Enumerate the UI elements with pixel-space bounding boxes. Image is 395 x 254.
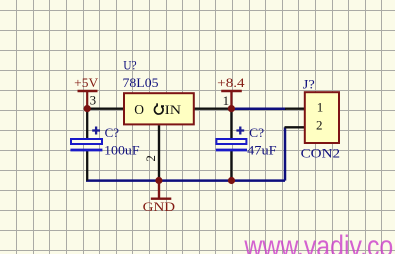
svg-text:2: 2	[316, 117, 323, 132]
svg-text:CON2: CON2	[301, 145, 341, 160]
connector J? pin 2 stub	[285, 126, 306, 128]
regulator inner glyph circular arrow	[154, 106, 163, 114]
regulator U? pin 2 (bottom)	[158, 125, 160, 180]
svg-text:100uF: 100uF	[104, 142, 140, 157]
capacitor C1 top pin	[86, 109, 88, 139]
junction dot B	[228, 105, 235, 112]
svg-text:1: 1	[223, 93, 230, 108]
capacitor C2 top plate	[216, 139, 246, 144]
wire riser to connector pin 2	[284, 127, 287, 180]
capacitor C2 bottom pin	[230, 151, 232, 181]
svg-text:O: O	[134, 102, 144, 117]
junction dot C (GND net)	[155, 177, 162, 184]
capacitor C1 plus	[92, 127, 100, 135]
svg-text:U?: U?	[123, 58, 137, 73]
connector J? body	[305, 92, 339, 143]
junction dot A	[84, 105, 91, 112]
capacitor C2 bottom plate	[216, 149, 247, 152]
svg-text:47uF: 47uF	[247, 143, 277, 158]
svg-text:J?: J?	[303, 76, 315, 91]
wire regulator output to connector pin 1	[231, 107, 286, 110]
capacitor C1 bottom pin	[86, 151, 88, 181]
connector J? pin 1 stub	[285, 107, 306, 109]
power +5V symbol	[78, 90, 98, 92]
svg-text:+8.4: +8.4	[217, 75, 245, 90]
svg-text:+5V: +5V	[74, 75, 99, 90]
svg-text:www.vadiv.co: www.vadiv.co	[243, 229, 393, 254]
regulator U? body	[124, 93, 194, 124]
svg-text:3: 3	[90, 92, 97, 107]
svg-text:GND: GND	[143, 199, 175, 214]
svg-text:1: 1	[317, 99, 324, 114]
capacitor C1 bottom plate	[70, 149, 102, 152]
regulator U? pin 1 (right)	[194, 107, 232, 109]
capacitor C2 plus	[236, 127, 244, 135]
svg-text:78L05: 78L05	[123, 75, 159, 90]
wire GND rail	[86, 179, 285, 182]
capacitor C2 top pin	[230, 109, 232, 139]
ground symbol	[158, 181, 160, 198]
junction dot D (C2 to rail)	[228, 177, 235, 184]
regulator U? pin 3 (left)	[87, 107, 124, 109]
svg-text:IN: IN	[165, 102, 182, 117]
svg-text:C?: C?	[249, 125, 264, 140]
svg-text:2: 2	[143, 155, 158, 162]
capacitor C1 top plate	[71, 139, 102, 144]
power +8.4 symbol	[221, 90, 242, 92]
svg-text:C?: C?	[105, 125, 120, 140]
